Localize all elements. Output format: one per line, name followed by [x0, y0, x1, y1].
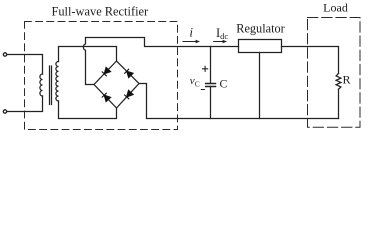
svg-text:Load: Load	[323, 1, 348, 15]
svg-text:Regulator: Regulator	[236, 22, 285, 36]
svg-text:R: R	[342, 73, 350, 87]
svg-text:Full-wave Rectifier: Full-wave Rectifier	[51, 4, 149, 18]
svg-text:vC: vC	[190, 75, 200, 88]
svg-text:Idc: Idc	[216, 26, 228, 41]
svg-text:i: i	[189, 25, 193, 40]
svg-text:C: C	[219, 76, 227, 90]
